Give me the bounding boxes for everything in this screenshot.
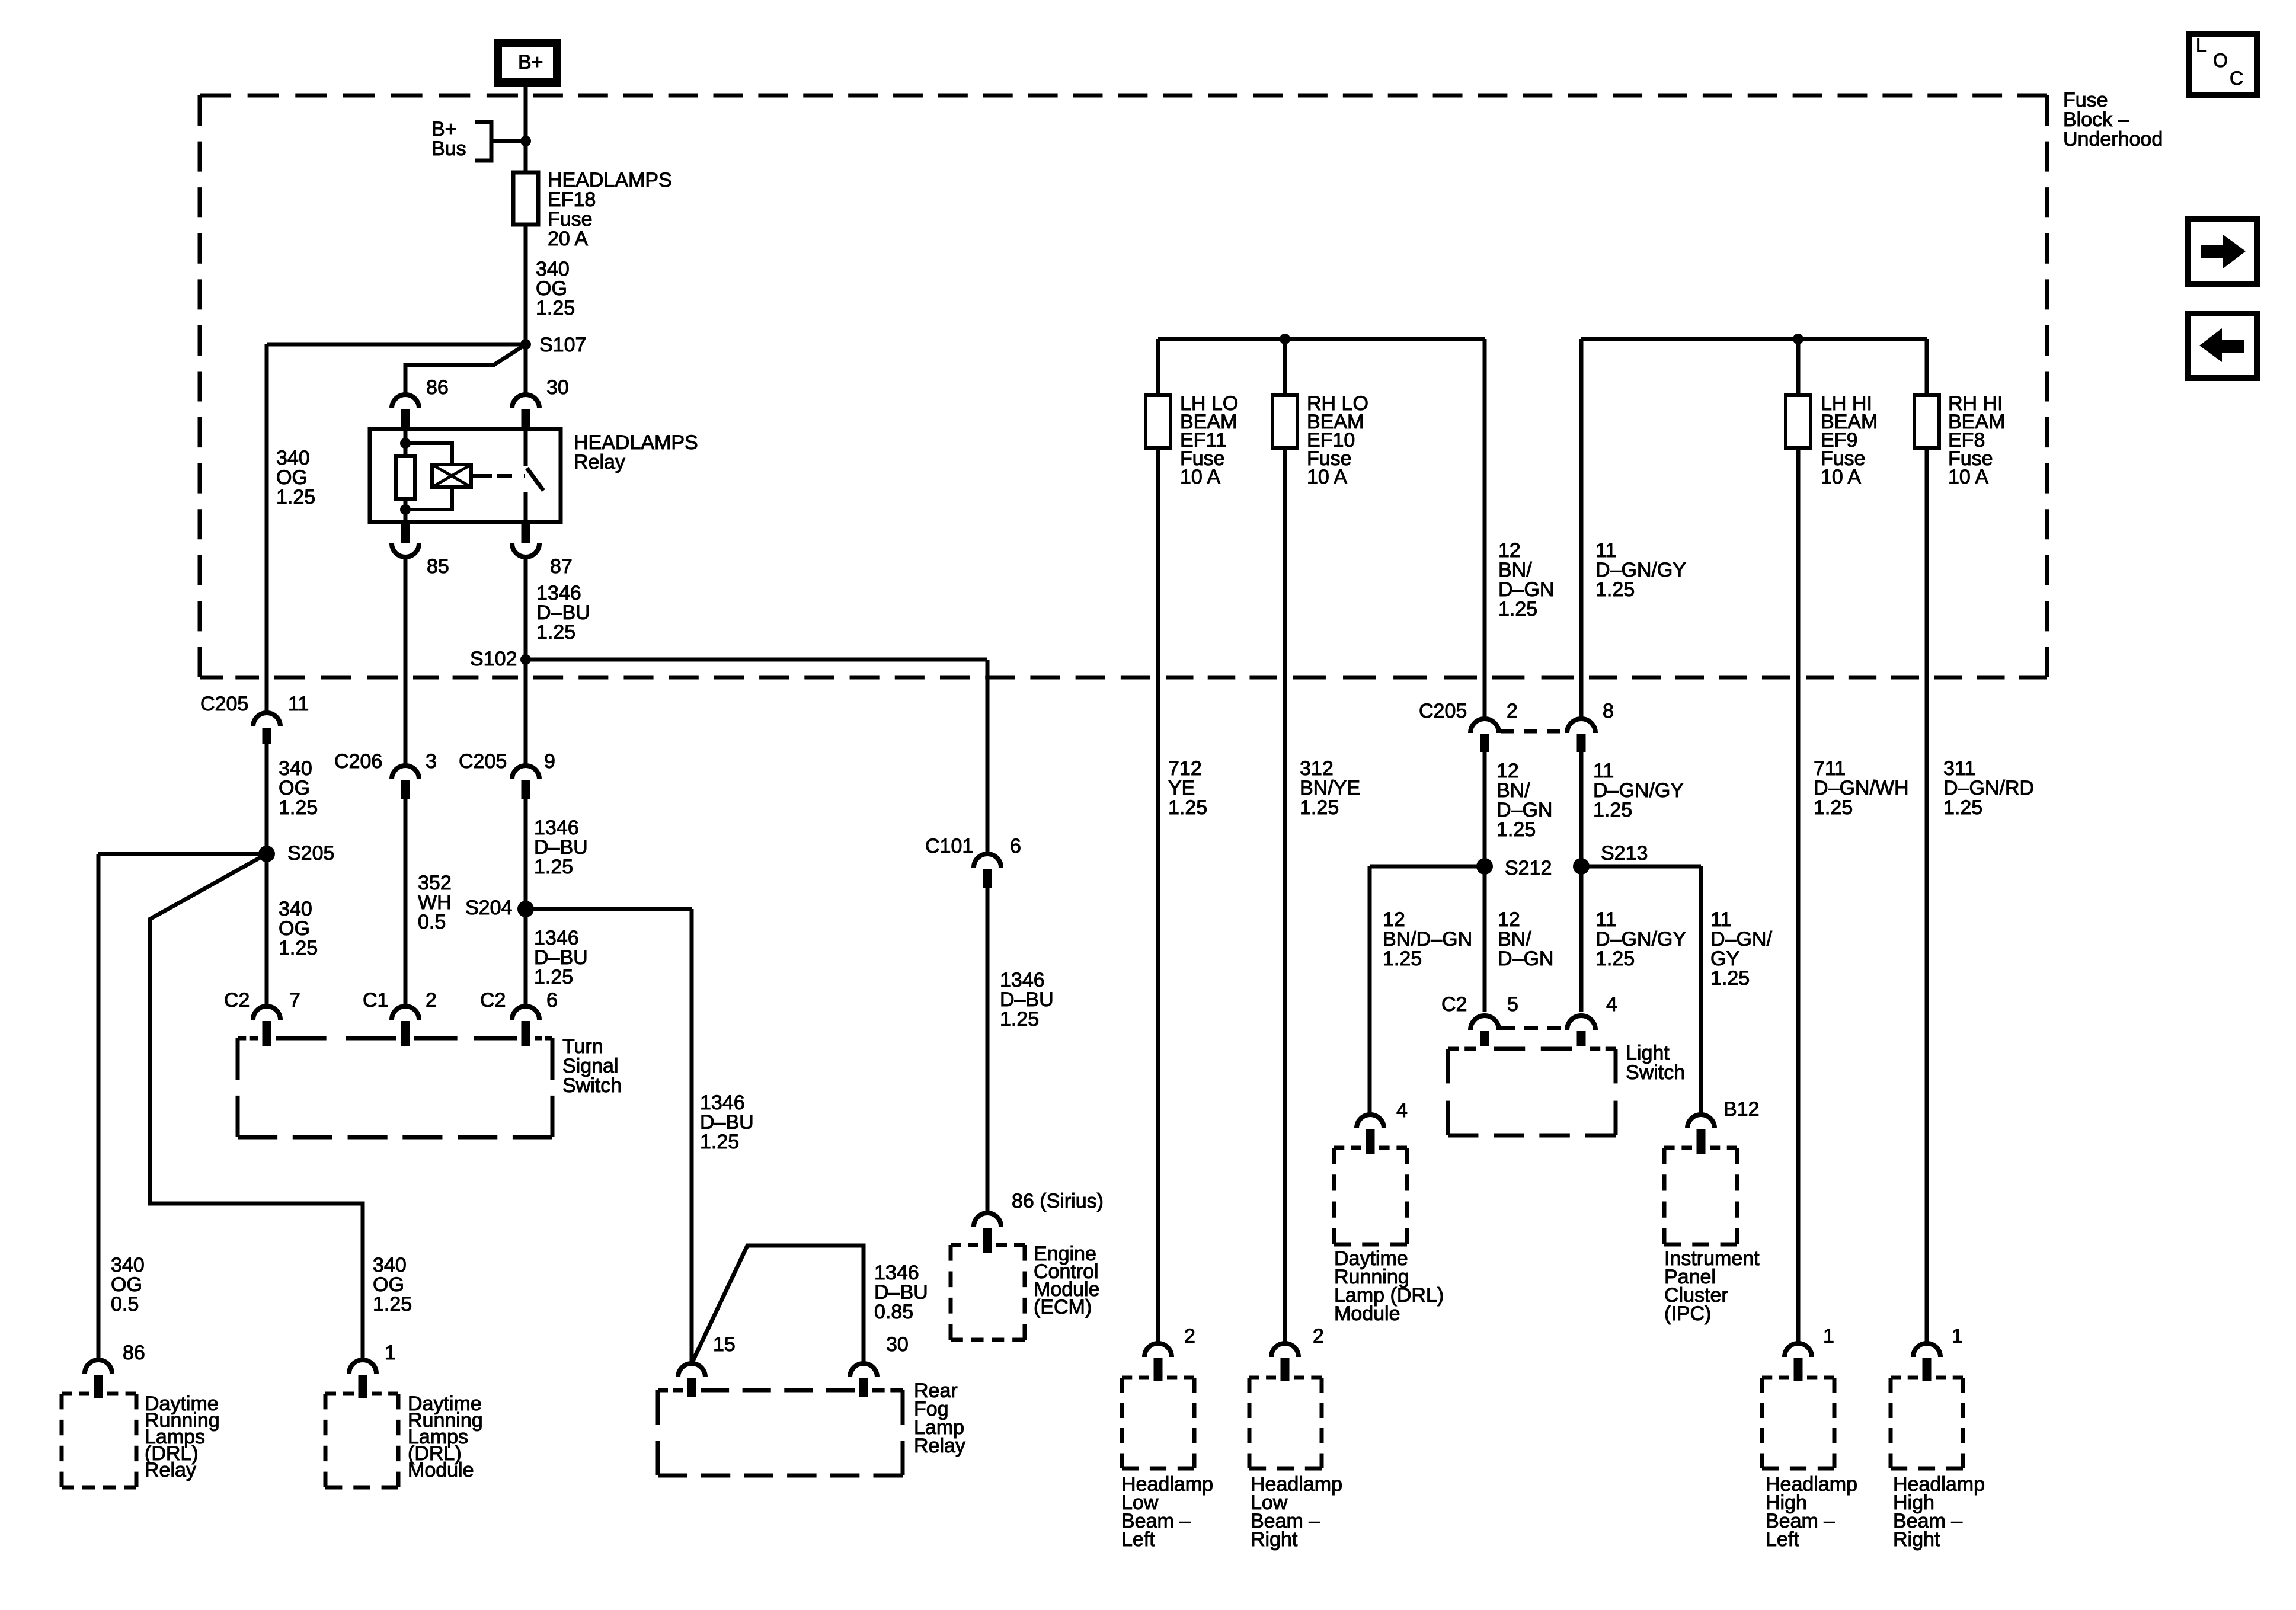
- svg-text:C: C: [2230, 68, 2243, 89]
- svg-text:Relay: Relay: [574, 451, 625, 473]
- svg-text:S212: S212: [1505, 857, 1552, 879]
- svg-text:1.25: 1.25: [1595, 948, 1635, 970]
- svg-text:1.25: 1.25: [1498, 598, 1537, 620]
- svg-text:1.25: 1.25: [1593, 799, 1632, 821]
- svg-text:C101: C101: [925, 835, 973, 857]
- svg-text:(IPC): (IPC): [1664, 1302, 1711, 1325]
- svg-text:11: 11: [288, 693, 309, 715]
- svg-text:O: O: [2213, 50, 2228, 71]
- svg-text:1.25: 1.25: [536, 621, 575, 644]
- svg-text:S205: S205: [287, 842, 334, 865]
- svg-text:9: 9: [544, 750, 555, 773]
- svg-text:30: 30: [886, 1333, 909, 1356]
- svg-text:1: 1: [385, 1342, 396, 1364]
- svg-text:B12: B12: [1723, 1098, 1760, 1121]
- svg-text:4: 4: [1396, 1099, 1408, 1122]
- svg-text:Right: Right: [1251, 1528, 1298, 1551]
- svg-text:1.25: 1.25: [1496, 818, 1536, 841]
- svg-text:1.25: 1.25: [1000, 1008, 1039, 1030]
- svg-text:2: 2: [426, 989, 437, 1012]
- svg-text:10 A: 10 A: [1307, 466, 1347, 488]
- svg-text:(ECM): (ECM): [1034, 1296, 1092, 1318]
- svg-text:1.25: 1.25: [279, 796, 318, 819]
- svg-text:S107: S107: [539, 334, 586, 356]
- svg-text:1.25: 1.25: [1943, 796, 1982, 819]
- svg-text:1.25: 1.25: [534, 966, 573, 988]
- svg-text:Switch: Switch: [1626, 1061, 1685, 1084]
- svg-text:2: 2: [1184, 1325, 1195, 1347]
- svg-text:Relay: Relay: [914, 1435, 965, 1457]
- svg-text:C205: C205: [1419, 700, 1467, 722]
- svg-text:1.25: 1.25: [1383, 948, 1422, 970]
- svg-text:C2: C2: [1441, 993, 1467, 1016]
- svg-text:20 A: 20 A: [548, 228, 588, 250]
- svg-text:D–GN: D–GN: [1498, 948, 1553, 970]
- svg-text:2: 2: [1313, 1325, 1324, 1347]
- svg-text:86: 86: [123, 1342, 145, 1364]
- svg-text:S204: S204: [465, 897, 512, 919]
- svg-text:87: 87: [550, 555, 573, 578]
- svg-text:8: 8: [1603, 700, 1614, 722]
- svg-text:Switch: Switch: [562, 1074, 622, 1097]
- svg-text:0.5: 0.5: [418, 911, 446, 933]
- svg-text:1: 1: [1823, 1325, 1834, 1347]
- svg-text:1.25: 1.25: [1168, 796, 1207, 819]
- svg-text:85: 85: [427, 555, 449, 578]
- svg-text:1.25: 1.25: [1814, 796, 1853, 819]
- svg-text:5: 5: [1507, 993, 1518, 1016]
- svg-text:6: 6: [546, 989, 558, 1012]
- svg-text:L: L: [2196, 34, 2207, 56]
- svg-text:1: 1: [1952, 1325, 1963, 1347]
- svg-text:C2: C2: [480, 989, 506, 1012]
- svg-text:10 A: 10 A: [1948, 466, 1988, 488]
- svg-text:B+: B+: [518, 51, 543, 73]
- svg-text:10 A: 10 A: [1821, 466, 1861, 488]
- svg-text:C1: C1: [363, 989, 388, 1012]
- svg-text:Left: Left: [1766, 1528, 1799, 1551]
- svg-text:Underhood: Underhood: [2063, 128, 2163, 151]
- svg-text:Relay: Relay: [145, 1459, 196, 1481]
- svg-text:1.25: 1.25: [1710, 967, 1750, 990]
- svg-text:Module: Module: [408, 1459, 474, 1481]
- svg-text:0.5: 0.5: [111, 1293, 139, 1315]
- svg-text:1.25: 1.25: [700, 1131, 739, 1153]
- svg-text:3: 3: [426, 750, 437, 773]
- svg-text:1.25: 1.25: [536, 297, 575, 319]
- svg-text:1.25: 1.25: [1300, 796, 1339, 819]
- svg-text:86: 86: [426, 376, 449, 399]
- svg-text:1.25: 1.25: [1595, 578, 1635, 601]
- svg-text:S102: S102: [470, 648, 517, 670]
- svg-text:86 (Sirius): 86 (Sirius): [1012, 1190, 1104, 1212]
- svg-text:1.25: 1.25: [276, 486, 315, 508]
- svg-text:1.25: 1.25: [373, 1293, 412, 1315]
- svg-text:C2: C2: [224, 989, 250, 1012]
- svg-text:1.25: 1.25: [279, 937, 318, 959]
- svg-text:15: 15: [713, 1333, 736, 1356]
- svg-text:30: 30: [546, 376, 569, 399]
- svg-text:S213: S213: [1601, 842, 1648, 865]
- svg-text:Right: Right: [1893, 1528, 1940, 1551]
- svg-text:1.25: 1.25: [534, 856, 573, 878]
- svg-text:4: 4: [1606, 993, 1617, 1016]
- svg-text:6: 6: [1010, 835, 1021, 857]
- svg-text:Module: Module: [1334, 1302, 1400, 1325]
- svg-text:C205: C205: [200, 693, 248, 715]
- svg-text:Bus: Bus: [431, 137, 466, 160]
- svg-text:C205: C205: [459, 750, 507, 773]
- svg-text:Left: Left: [1121, 1528, 1155, 1551]
- svg-text:10 A: 10 A: [1180, 466, 1220, 488]
- svg-text:7: 7: [289, 989, 300, 1012]
- svg-text:0.85: 0.85: [874, 1301, 913, 1323]
- svg-text:C206: C206: [334, 750, 382, 773]
- svg-text:2: 2: [1507, 700, 1518, 722]
